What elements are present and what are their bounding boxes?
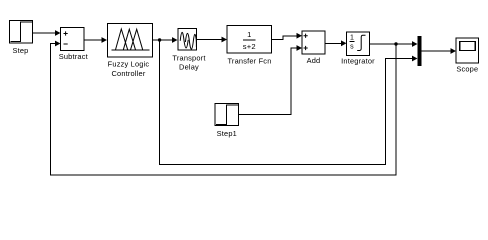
svg-text:Transfer Fcn: Transfer Fcn — [227, 56, 271, 65]
svg-text:Transport: Transport — [172, 53, 205, 62]
block Integrator — [347, 32, 370, 56]
svg-text:Add: Add — [307, 56, 321, 65]
svg-text:Step1: Step1 — [217, 129, 237, 138]
plus sign Subtract — [64, 31, 68, 35]
block Fuzzy Logic Controller — [108, 24, 153, 58]
svg-text:Integrator: Integrator — [341, 56, 375, 65]
minus sign Subtract — [64, 43, 68, 45]
svg-text:Subtract: Subtract — [59, 52, 88, 61]
wire Transport Delay to Transfer Fcn — [197, 39, 223, 41]
node junction on Integrator output — [394, 42, 397, 45]
mux Mux — [418, 36, 422, 66]
node junction on FLC output — [158, 38, 161, 41]
block Transport Delay — [178, 29, 197, 51]
svg-text:Step: Step — [12, 46, 28, 55]
wire Mux to Scope — [422, 50, 452, 52]
block Step1 — [215, 104, 239, 126]
wire outer feedback (Integrator output to Subtract minus input) — [51, 44, 397, 176]
wire Transfer Fcn to Add — [272, 36, 298, 40]
svg-text:Fuzzy Logic: Fuzzy Logic — [108, 60, 150, 69]
svg-text:1: 1 — [350, 35, 354, 42]
svg-text:1: 1 — [247, 30, 251, 39]
svg-text:Scope: Scope — [456, 64, 478, 73]
wire Integrator to Mux — [370, 43, 413, 45]
wire Step1 to Add — [239, 48, 298, 115]
plus sign Add input 2 — [304, 46, 308, 50]
block Transfer Fcn — [227, 26, 272, 54]
svg-text:s+2: s+2 — [243, 42, 256, 51]
block Add — [302, 31, 325, 54]
wire Step to Subtract — [33, 32, 56, 34]
plus sign Add input 1 — [304, 34, 308, 38]
block Subtract — [61, 28, 85, 51]
svg-text:Delay: Delay — [179, 62, 199, 71]
svg-text:Controller: Controller — [111, 69, 145, 78]
wire Add to Integrator — [325, 42, 342, 44]
wire FLC to Transport Delay — [153, 39, 173, 41]
wire inner feedback (FLC output to Mux lower input) — [160, 40, 413, 164]
block Step — [10, 21, 33, 44]
block Scope — [456, 38, 479, 63]
wire Subtract to Fuzzy Logic Controller — [84, 39, 102, 41]
svg-text:s: s — [350, 43, 354, 50]
